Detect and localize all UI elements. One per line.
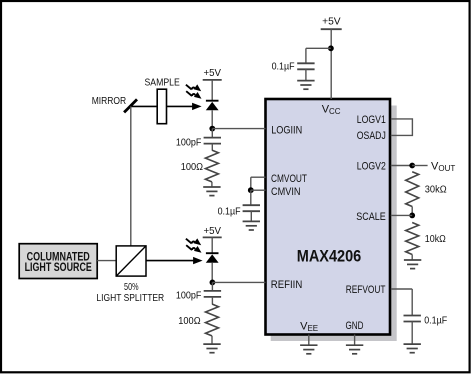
svg-text:MIRROR: MIRROR xyxy=(92,96,127,107)
+5V supply bar (VCC supply) xyxy=(321,28,342,30)
svg-text:+5V: +5V xyxy=(322,16,341,28)
photodiode D2 xyxy=(206,253,219,263)
wire CMVIN stub xyxy=(251,189,266,191)
wire R1 to ground xyxy=(211,182,213,187)
svg-text:10kΩ: 10kΩ xyxy=(425,233,446,245)
wire node to C2 xyxy=(211,129,213,138)
capacitor C2 100pF xyxy=(204,138,221,144)
svg-text:SAMPLE: SAMPLE xyxy=(145,76,180,88)
node SCALE node xyxy=(409,213,415,219)
svg-text:+5V: +5V xyxy=(203,67,221,79)
node CMVIN node xyxy=(248,187,254,193)
wire REFVOUT stub xyxy=(391,288,412,290)
wire REFVOUT down to C5 xyxy=(411,289,413,315)
svg-text:0.1µF: 0.1µF xyxy=(424,314,447,326)
light beam arrow into D1 xyxy=(131,103,202,110)
wire cap to ground xyxy=(305,69,307,80)
ground (VCC bypass) xyxy=(297,81,314,90)
wire light source to splitter xyxy=(97,260,116,262)
svg-text:REFVOUT: REFVOUT xyxy=(346,284,386,296)
wire R4 to ground xyxy=(411,255,413,260)
svg-text:LIGHT SPLITTER: LIGHT SPLITTER xyxy=(96,292,164,304)
50% light splitter box xyxy=(116,246,146,276)
wire junction to bypass cap xyxy=(306,47,331,49)
svg-text:100Ω: 100Ω xyxy=(178,315,200,327)
svg-text:REFIIN: REFIIN xyxy=(271,279,303,291)
wire D1 anode to node xyxy=(211,110,213,128)
svg-text:0.1µF: 0.1µF xyxy=(218,206,241,218)
sample cell xyxy=(157,89,166,124)
wire to VOUT label xyxy=(412,165,427,167)
wire beam mirror to splitter xyxy=(130,106,132,246)
capacitor C1 0.1uF (VCC bypass) xyxy=(297,63,314,69)
wire +5V to photodiode D2 xyxy=(211,237,213,253)
svg-text:100Ω: 100Ω xyxy=(181,161,203,173)
wire C3 to R2 xyxy=(211,297,213,304)
capacitor C4 0.1uF (CMV) xyxy=(243,205,260,211)
svg-text:CMVOUT: CMVOUT xyxy=(271,173,307,185)
ground (VEE) xyxy=(300,345,317,354)
ground (R2) xyxy=(203,344,220,353)
wire node to C3 xyxy=(211,282,213,290)
wire LOGV2 stub xyxy=(391,165,412,167)
incident light arrows (D2) xyxy=(186,238,202,252)
ground (R1) xyxy=(203,187,220,196)
wire VEE to ground xyxy=(308,335,310,346)
incident light arrows (D1) xyxy=(186,84,202,98)
svg-text:LOGIIN: LOGIIN xyxy=(271,125,302,137)
wire +5V to photodiode D1 xyxy=(211,80,213,101)
columnated light source box xyxy=(19,244,97,279)
svg-text:MAX4206: MAX4206 xyxy=(297,248,362,266)
wire node to C4 xyxy=(250,190,252,205)
wire down to bypass cap xyxy=(305,48,307,63)
wire SCALE stub xyxy=(391,214,412,216)
light beam arrow into D2 xyxy=(146,257,203,264)
capacitor C3 100pF xyxy=(204,291,221,297)
svg-text:100pF: 100pF xyxy=(176,136,202,148)
svg-text:CMVIN: CMVIN xyxy=(271,186,301,198)
ground (R4) xyxy=(404,260,421,269)
photodiode D1 xyxy=(206,101,219,111)
wire C2 to R1 xyxy=(211,144,213,151)
node VCC bypass junction xyxy=(328,45,334,51)
resistor R3 30kΩ xyxy=(406,172,419,207)
svg-text:+5V: +5V xyxy=(203,225,221,237)
IC U1 MAX4206 body xyxy=(266,99,391,335)
svg-text:LIGHT SOURCE: LIGHT SOURCE xyxy=(25,262,92,274)
IC U1 MAX4206 shadow xyxy=(271,106,397,342)
svg-text:0.1µF: 0.1µF xyxy=(272,61,295,73)
svg-text:LOGV1: LOGV1 xyxy=(357,114,386,126)
wire GND to ground xyxy=(354,335,356,346)
ground (C4) xyxy=(243,221,260,230)
ground (C5) xyxy=(404,344,421,353)
wire CMVOUT stub xyxy=(251,176,266,178)
wire node to LOGIIN pin xyxy=(212,128,265,130)
svg-text:GND: GND xyxy=(346,320,364,332)
wire node to REFIIN pin xyxy=(212,281,265,283)
wire +5V bar to VCC pin xyxy=(330,29,332,99)
ground (GND) xyxy=(346,345,363,354)
resistor R4 10kΩ xyxy=(406,223,419,255)
resistor R1 100Ω xyxy=(205,150,218,182)
wire C5 to ground xyxy=(411,322,413,344)
svg-text:OSADJ: OSADJ xyxy=(357,130,386,142)
wire R2 to ground xyxy=(211,336,213,344)
+5V supply bar (D2) xyxy=(203,236,222,238)
resistor R2 100Ω xyxy=(206,304,219,336)
wire R3 to SCALE node xyxy=(411,207,413,216)
mirror xyxy=(124,99,137,112)
wire LOGV1-OSADJ loop xyxy=(391,119,413,135)
wire CMVOUT to CMVIN xyxy=(250,177,252,190)
svg-text:30kΩ: 30kΩ xyxy=(425,184,447,196)
node REFIIN node xyxy=(210,280,216,286)
+5V supply bar (D1) xyxy=(203,79,222,81)
svg-text:100pF: 100pF xyxy=(176,290,202,302)
wire C4 to ground xyxy=(250,211,252,221)
node VOUT node xyxy=(409,163,415,169)
node LOGIIN node xyxy=(209,126,215,132)
wire D2 anode to node xyxy=(211,263,213,283)
svg-text:LOGV2: LOGV2 xyxy=(357,161,386,173)
svg-text:SCALE: SCALE xyxy=(356,211,386,223)
capacitor C5 0.1uF (REFVOUT) xyxy=(404,316,421,322)
